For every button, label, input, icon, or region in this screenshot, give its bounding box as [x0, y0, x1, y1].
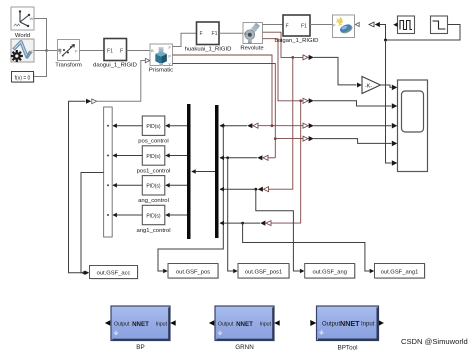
svg-text:Transform: Transform: [55, 63, 82, 69]
node row1 junction: [271, 124, 274, 127]
svg-text:F: F: [120, 48, 123, 54]
wire Prismatic-F to huakuai-F: [173, 33, 197, 46]
node v junction: [274, 137, 277, 140]
svg-text:daogui_1_RIGID: daogui_1_RIGID: [93, 63, 137, 69]
block Step: [431, 16, 448, 34]
svg-text:out.GSF_ang: out.GSF_ang: [312, 270, 346, 276]
wire World/Config/Solver to junction: [34, 19, 57, 77]
wire row1 maroon: [258, 125, 303, 127]
block out.GSF_acc: [90, 266, 139, 280]
wire gain output to scope input1: [381, 85, 392, 87]
wire V4 down to row4: [271, 101, 301, 223]
svg-text:W: W: [30, 16, 34, 21]
svg-text:BP: BP: [136, 344, 144, 351]
block out.GSF_pos: [168, 264, 219, 280]
block out.GSF_pos1: [238, 264, 290, 280]
svg-text:NNET: NNET: [132, 321, 149, 328]
wire Revolute w to row2: [263, 39, 304, 101]
wire row4 to bar2: [220, 222, 260, 224]
svg-text:Prismatic: Prismatic: [149, 68, 173, 74]
svg-text:-K-: -K-: [365, 83, 372, 89]
wire row4 to out.GSF_ang1: [243, 223, 372, 271]
wire Prismatic v down: [173, 64, 276, 158]
wire PID3 to Sum: [112, 183, 142, 188]
node row2 junction: [226, 156, 229, 159]
block Sum (flipped): [104, 107, 113, 237]
svg-text:ang1_control: ang1_control: [136, 228, 170, 234]
wire Transform-F to daogui-F1: [80, 50, 105, 52]
svg-text:Output: Output: [114, 321, 130, 327]
svg-text:F1: F1: [301, 24, 307, 30]
converter pair gain row: [303, 55, 314, 60]
wire row3 to out.GSF_ang: [256, 189, 302, 271]
svg-text:GRNN: GRNN: [235, 344, 254, 351]
node row1 black junction: [222, 124, 225, 127]
wire Revolute q to gain row: [263, 32, 304, 57]
wire row3 to bar2: [220, 188, 258, 190]
wire daogui-F to Prismatic-B: [127, 50, 151, 52]
converter pair row4: [260, 221, 271, 226]
wire PID4 to Sum: [112, 213, 142, 218]
node row3 junction: [254, 188, 257, 191]
wire row1 to scope in3: [314, 125, 392, 127]
converter pair row3: [258, 187, 269, 192]
block out.GSF_ang: [305, 264, 356, 280]
wire baigan-F1 to force sensor: [310, 24, 333, 26]
converter pair force: [86, 99, 97, 104]
wire V3 down to row3: [269, 57, 293, 189]
wire PID1 to Sum: [112, 123, 142, 128]
svg-text:Revolute: Revolute: [240, 46, 264, 52]
svg-text:B: B: [151, 48, 154, 53]
block out.GSF_ang1: [375, 264, 426, 280]
block daogui_1_RIGID: [93, 39, 137, 69]
svg-text:F: F: [286, 24, 289, 30]
svg-text:out.GSF_acc: out.GSF_acc: [97, 271, 131, 277]
wire PID2 to Sum: [112, 153, 142, 158]
wire in2 row to scope: [314, 101, 392, 106]
block BP neural net: [105, 306, 176, 351]
port marker sensor right: [355, 22, 359, 26]
block demux bar1: [187, 104, 191, 239]
node step junction: [384, 39, 387, 42]
node q-gain junction: [291, 56, 294, 59]
wire huakuai-F1 to Revolute-B: [219, 32, 243, 34]
block BPTool neural net: [310, 306, 384, 352]
block Revolute: [240, 23, 264, 52]
port marker prismatic actuation: [145, 58, 149, 62]
svg-text:B: B: [244, 31, 247, 36]
wire bar1 to PID4: [165, 213, 187, 218]
node acc junction: [83, 271, 86, 274]
svg-text:Input: Input: [156, 321, 168, 327]
wire bar1 to PID3: [165, 183, 187, 188]
converter pair step-to-sensor: [369, 22, 380, 27]
block Solver f(x)=0: [12, 72, 35, 84]
wire row1 to bar2: [220, 125, 247, 127]
svg-text:ang_control: ang_control: [138, 198, 169, 204]
svg-text:Output: Output: [322, 322, 340, 328]
block PID ang_control: [138, 176, 169, 205]
converter pair row1 left: [247, 123, 258, 128]
svg-text:BPTool: BPTool: [338, 345, 358, 352]
wire gain row to gain: [314, 57, 357, 85]
wire step feedback: [380, 25, 460, 41]
block Prismatic: [149, 44, 173, 74]
svg-text:F: F: [200, 31, 203, 37]
svg-text:pos1_control: pos1_control: [137, 168, 171, 174]
block PID ang1_control: [136, 205, 170, 234]
block PID pos_control: [138, 116, 168, 145]
block external force actuator: [333, 15, 360, 38]
block baigan_1_RIGID: [275, 15, 319, 44]
wire junction to scope input5: [386, 40, 392, 163]
wire row1 to out.GSF_pos: [158, 126, 223, 271]
wire bar1 to PID2: [165, 153, 187, 158]
svg-text:out.GSF_pos1: out.GSF_pos1: [245, 270, 282, 276]
wire row2 to out.GSF_pos1: [228, 158, 235, 271]
block Scope: [392, 80, 428, 172]
converter pair row1 right: [303, 123, 314, 128]
svg-text:NNET: NNET: [340, 319, 360, 328]
wire v branch to scope in4: [275, 138, 303, 140]
block Pulse Generator: [393, 16, 414, 34]
block GRNN neural net: [209, 306, 280, 351]
block Transform: [55, 40, 82, 69]
svg-text:f(x) = 0: f(x) = 0: [15, 75, 31, 81]
svg-text:huakuai_1_RIGID: huakuai_1_RIGID: [185, 47, 232, 53]
svg-text:Output: Output: [218, 321, 234, 327]
svg-text:PID(s): PID(s): [146, 124, 161, 130]
converter pair in2 row: [303, 98, 314, 103]
svg-text:out.GSF_pos: out.GSF_pos: [176, 270, 210, 276]
block mux bar2: [215, 105, 219, 238]
wire bar2 to bar1: [191, 169, 215, 174]
svg-text:pos_control: pos_control: [138, 139, 168, 145]
svg-text:F1: F1: [212, 31, 218, 37]
wire row2 to bar2: [220, 157, 257, 159]
wire Revolute-F to baigan-F: [263, 24, 284, 26]
block huakuai_1_RIGID: [185, 22, 232, 53]
svg-text:World: World: [15, 33, 30, 39]
svg-text:F1: F1: [107, 48, 113, 54]
svg-text:NNET: NNET: [236, 321, 253, 328]
svg-text:Input: Input: [260, 321, 272, 327]
block Mechanism Configuration: [11, 39, 34, 62]
node row4 junction: [241, 222, 244, 225]
svg-text:PID(s): PID(s): [146, 213, 161, 219]
svg-text:Input: Input: [361, 322, 375, 328]
wire bar1 to PID1: [165, 123, 187, 128]
converter pair row2: [257, 155, 268, 160]
block PID pos1_control: [137, 146, 171, 175]
block Gain -K-: [357, 77, 381, 94]
svg-text:PID(s): PID(s): [146, 154, 161, 160]
node config junction: [45, 49, 48, 52]
svg-text:PID(s): PID(s): [146, 184, 161, 190]
svg-text:CSDN @Simuworld: CSDN @Simuworld: [401, 337, 468, 346]
svg-text:v: v: [169, 61, 171, 66]
wire row2 maroon end: [268, 157, 275, 159]
wire Sum output feedback: [81, 173, 104, 273]
node w-row junction: [299, 99, 302, 102]
svg-text:C: C: [31, 49, 34, 54]
wire feedback to prismatic actuation: [69, 101, 86, 272]
block World: [11, 7, 34, 39]
svg-text:out.GSF_ang1: out.GSF_ang1: [381, 270, 419, 276]
wire Prismatic p down: [173, 55, 273, 126]
